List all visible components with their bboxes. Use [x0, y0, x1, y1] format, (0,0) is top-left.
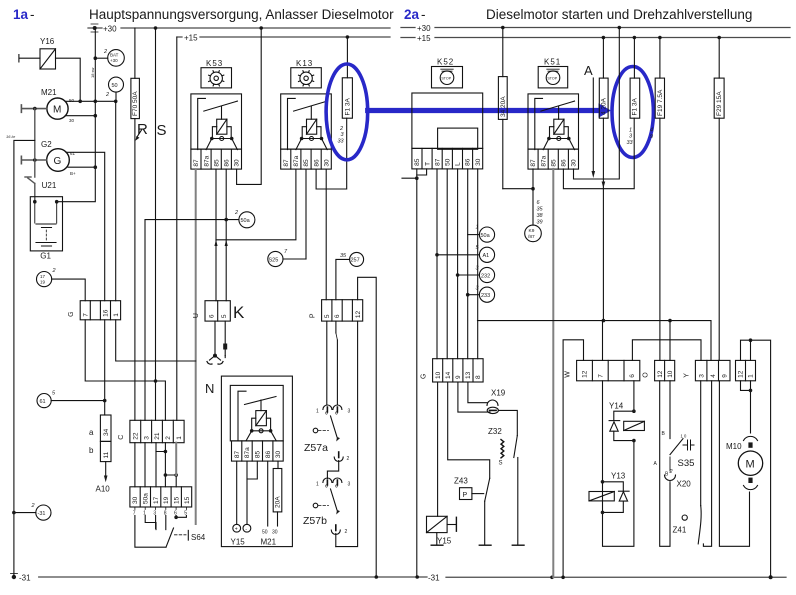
svg-text:3: 3: [698, 374, 705, 378]
wire 50 column to strip G: [115, 101, 117, 300]
svg-text:a: a: [89, 428, 94, 437]
node 17/19 circle: [37, 268, 86, 301]
wire K53-30 to +30 drop: [237, 28, 262, 184]
S64 wiring: [135, 516, 166, 548]
distribution bus wire: [478, 321, 712, 361]
svg-text:2: 2: [52, 268, 56, 274]
wires C22 C3 down: [135, 443, 145, 487]
svg-text:86: 86: [265, 450, 272, 458]
svg-text:35: 35: [537, 207, 544, 213]
svg-text:S35: S35: [678, 458, 695, 469]
wire S column: [155, 28, 157, 420]
svg-text:L: L: [455, 162, 462, 166]
+30 rail section 1a: [88, 28, 390, 37]
svg-text:+15: +15: [184, 34, 198, 43]
svg-text:86: 86: [561, 159, 568, 167]
svg-text:N: N: [205, 381, 214, 396]
svg-text:16 br: 16 br: [6, 134, 16, 139]
battery U21: [30, 181, 62, 260]
svg-text:19: 19: [163, 496, 170, 504]
wire O12 from F19, down to u-turn: [660, 381, 670, 547]
svg-text:P: P: [463, 492, 468, 499]
wire left col with switch to U21: [25, 109, 35, 202]
wire P12 bottom to Z57b out: [336, 321, 358, 546]
svg-text:15: 15: [184, 496, 191, 504]
svg-text:34 20A: 34 20A: [500, 96, 507, 117]
arrow on R line: [137, 130, 142, 137]
svg-text:Z41: Z41: [673, 526, 687, 535]
connector strip U: [205, 301, 230, 321]
svg-text:F70 50A: F70 50A: [132, 91, 139, 116]
wire 12/1 bottom loop to M10: [741, 381, 751, 433]
node K9/87: [532, 189, 534, 225]
svg-text:S: S: [499, 461, 503, 467]
svg-text:F1 3A: F1 3A: [345, 97, 352, 115]
svg-text:30: 30: [272, 530, 278, 536]
wire P12 top loop: [358, 277, 377, 577]
svg-text:/87: /87: [528, 234, 535, 240]
svg-text:F29 15A: F29 15A: [716, 91, 723, 116]
section title 1a: [13, 7, 752, 22]
svg-text:M21: M21: [41, 88, 57, 97]
fuse F29 15A: [718, 38, 720, 361]
switch Z57b: [323, 478, 342, 483]
svg-text:Z32: Z32: [488, 427, 502, 436]
wire W12 loop to rail: [563, 340, 583, 578]
svg-text:22: 22: [133, 432, 140, 440]
svg-text:87a: 87a: [244, 447, 251, 458]
wire W6 loop to Y3: [632, 340, 701, 361]
svg-text:50: 50: [112, 83, 118, 89]
svg-text:38: 38: [537, 213, 544, 219]
K13 wires below: 85 to S25, 86 to F1, 30 to P5: [305, 170, 307, 259]
svg-text:1: 1: [476, 225, 479, 231]
svg-text:8: 8: [475, 375, 482, 379]
svg-text:30: 30: [234, 159, 241, 167]
svg-text:+30: +30: [110, 58, 118, 63]
svg-text:87a: 87a: [540, 155, 547, 166]
svg-text:87: 87: [283, 159, 290, 167]
svg-text:30: 30: [275, 450, 282, 458]
-31 rail section 1a: [39, 576, 786, 578]
svg-text:17: 17: [153, 496, 160, 504]
svg-text:-31: -31: [38, 511, 46, 517]
svg-text:STOP: STOP: [547, 76, 557, 80]
svg-text:2: 2: [105, 92, 109, 98]
node 50: [105, 77, 124, 101]
wire G16 column down to a/34: [104, 320, 106, 415]
svg-text:M21: M21: [261, 538, 277, 547]
valve Y15 (2a): [427, 516, 448, 532]
svg-text:A1: A1: [483, 253, 490, 259]
svg-text:U: U: [193, 313, 200, 318]
svg-text:Z57a: Z57a: [304, 442, 328, 454]
svg-text:85: 85: [303, 159, 310, 167]
svg-text:5: 5: [221, 314, 228, 318]
connector strip Y: [695, 360, 730, 380]
svg-text:A: A: [584, 63, 593, 78]
wire G1-cell route to S64: [116, 320, 196, 361]
fuse F1 3A (2a): [633, 38, 635, 79]
switch Z41: [682, 515, 687, 520]
wire 12/1 strip top loop to rail: [741, 340, 771, 577]
svg-text:O: O: [643, 372, 650, 378]
connector strip O: [655, 360, 675, 380]
svg-text:12: 12: [657, 370, 664, 378]
svg-text:1a: 1a: [13, 7, 29, 22]
svg-text:2: 2: [669, 469, 673, 475]
svg-text:3: 3: [348, 482, 351, 488]
svg-text:S25: S25: [269, 257, 279, 263]
wires U to fork: [214, 321, 216, 356]
control unit N box: [221, 376, 292, 546]
K52 pin wires down: [416, 169, 418, 577]
svg-text:5: 5: [324, 314, 331, 318]
svg-text:+30: +30: [103, 25, 117, 34]
svg-text:30: 30: [323, 159, 330, 167]
svg-text:K: K: [233, 303, 245, 322]
svg-text:257: 257: [351, 258, 360, 264]
svg-text:K52: K52: [437, 58, 454, 67]
svg-text:85: 85: [213, 159, 220, 167]
svg-text:50: 50: [445, 158, 452, 166]
wire Y3 to Z41: [700, 381, 702, 506]
svg-text:2: 2: [103, 49, 107, 55]
svg-text:Z43: Z43: [454, 477, 468, 486]
svg-text:2: 2: [345, 529, 348, 535]
svg-text:232: 232: [481, 273, 490, 279]
svg-text:C: C: [118, 435, 125, 440]
svg-text:14: 14: [445, 371, 452, 379]
svg-text:Y16: Y16: [40, 37, 55, 46]
svg-text:233: 233: [481, 293, 490, 299]
svg-text:12: 12: [355, 310, 362, 318]
svg-text:9: 9: [650, 134, 653, 140]
svg-text:13: 13: [465, 371, 472, 379]
svg-text:M10: M10: [726, 442, 742, 451]
svg-text:3: 3: [143, 436, 150, 440]
svg-text:61: 61: [40, 399, 46, 405]
wires C21/C2 jog: [156, 443, 165, 452]
connector strip C: [130, 420, 184, 442]
svg-text:7: 7: [598, 374, 605, 378]
svg-text:F1 3A: F1 3A: [632, 97, 639, 115]
svg-text:P: P: [310, 313, 317, 318]
svg-text:19: 19: [40, 280, 46, 285]
connector strip 12/1: [736, 360, 756, 380]
svg-text:+15: +15: [417, 34, 431, 43]
svg-text:6: 6: [334, 314, 341, 318]
fuse F19 7.5A: [659, 38, 661, 361]
svg-text:85: 85: [414, 158, 421, 166]
svg-text:Y13: Y13: [611, 472, 626, 481]
svg-text:S64: S64: [191, 533, 206, 542]
svg-text:-: -: [30, 7, 35, 22]
wire G7 down-right to C2: [85, 320, 165, 421]
svg-text:85: 85: [551, 159, 558, 167]
svg-text:30: 30: [571, 159, 578, 167]
generator G2: [21, 140, 104, 301]
svg-text:12: 12: [582, 370, 589, 378]
svg-text:b: b: [89, 446, 94, 455]
svg-text:39: 39: [537, 220, 543, 226]
svg-text:+: +: [235, 527, 238, 533]
K53 wires below: [195, 169, 197, 524]
node BAT +30: [94, 49, 125, 66]
svg-text:87: 87: [434, 158, 441, 166]
svg-text:87a: 87a: [203, 155, 210, 166]
svg-text:50a: 50a: [143, 493, 150, 504]
+30/+15 rails section 2a: [401, 28, 790, 38]
svg-text:Hauptspannungsversorgung, Anla: Hauptspannungsversorgung, Anlasser Diese…: [89, 7, 394, 22]
svg-text:S: S: [157, 122, 167, 139]
svg-text:18 sw: 18 sw: [90, 67, 95, 78]
svg-text:86: 86: [465, 158, 472, 166]
svg-text:12: 12: [738, 370, 745, 378]
svg-text:1: 1: [748, 374, 755, 378]
svg-text:30: 30: [475, 158, 482, 166]
svg-text:K53: K53: [206, 59, 223, 68]
switch Z57a: [326, 321, 328, 405]
svg-text:35: 35: [340, 253, 347, 259]
wire +15 column to C1: [176, 37, 178, 420]
svg-text:B+: B+: [70, 171, 76, 176]
svg-text:3: 3: [348, 409, 351, 415]
svg-text:10: 10: [667, 370, 674, 378]
svg-text:Dieselmotor starten und Drehza: Dieselmotor starten und Drehzahlverstell…: [486, 7, 752, 22]
svg-text:M: M: [746, 459, 755, 471]
svg-text:30: 30: [69, 118, 75, 123]
svg-text:Y: Y: [683, 373, 690, 378]
svg-text:50: 50: [262, 530, 268, 536]
connector strip W: [577, 360, 640, 380]
svg-text:50a: 50a: [481, 233, 491, 239]
relay Y16: [19, 37, 80, 101]
svg-text:86: 86: [224, 159, 231, 167]
svg-text:87: 87: [530, 159, 537, 167]
svg-text:1: 1: [316, 482, 319, 488]
svg-text:4 20A: 4 20A: [601, 97, 608, 115]
svg-text:-31: -31: [428, 574, 440, 583]
svg-text:G: G: [421, 374, 428, 379]
svg-text:1: 1: [113, 313, 120, 317]
svg-text:W: W: [565, 371, 572, 378]
K51 wires: 85 grey to rail, 86 to F1, 30 to +30 drop: [552, 169, 554, 577]
ignition switch strip 30/50a/17/19/15/15: [130, 487, 192, 507]
svg-text:BAT: BAT: [110, 53, 119, 58]
svg-text:G: G: [54, 156, 62, 167]
svg-text:33: 33: [338, 139, 345, 145]
node 50a: [145, 220, 239, 421]
svg-text:50a: 50a: [241, 218, 251, 224]
svg-text:K13: K13: [296, 59, 313, 68]
node 257: [350, 252, 364, 266]
switch S35: [670, 439, 683, 455]
wire +30 column: [57, 28, 96, 202]
svg-text:2: 2: [234, 210, 238, 216]
motor M21 (starter): [21, 88, 117, 123]
svg-text:K51: K51: [544, 58, 561, 67]
svg-text:30: 30: [132, 496, 139, 504]
svg-text:U21: U21: [42, 181, 57, 190]
svg-text:G2: G2: [41, 140, 52, 149]
fuse F1 3A (1a): [346, 37, 348, 78]
nodes 50a A1 232 233: [479, 227, 494, 242]
connector strip G (2a): [433, 359, 484, 382]
svg-text:33: 33: [627, 140, 634, 146]
svg-text:4: 4: [710, 374, 717, 378]
svg-text:9: 9: [455, 375, 462, 379]
svg-text:9: 9: [721, 374, 728, 378]
svg-text:-31: -31: [19, 574, 31, 583]
connector strip P: [322, 300, 363, 321]
svg-text:G: G: [68, 311, 75, 316]
svg-text:Z57b: Z57b: [303, 515, 327, 527]
svg-text:2a: 2a: [404, 7, 420, 22]
svg-text:1: 1: [176, 436, 183, 440]
svg-text:6: 6: [629, 374, 636, 378]
svg-text:2: 2: [31, 503, 35, 509]
svg-text:10: 10: [435, 371, 442, 379]
svg-text:7: 7: [83, 313, 90, 317]
svg-text:Y15: Y15: [437, 537, 452, 546]
switch S64: [166, 528, 174, 547]
connector strip G (1a): [80, 301, 120, 320]
svg-text:F19 7.5A: F19 7.5A: [657, 89, 664, 116]
fuse F4 20A with arrow to 86 wire: [602, 38, 604, 321]
svg-text:11: 11: [103, 451, 110, 458]
+30 start symbol: [91, 24, 98, 32]
svg-text:+30: +30: [417, 24, 431, 33]
svg-text:1 0: 1 0: [681, 434, 687, 439]
node 2 -31: [36, 505, 51, 520]
svg-text:85: 85: [255, 450, 262, 458]
svg-text:87: 87: [234, 450, 241, 458]
svg-text:M: M: [53, 105, 61, 116]
svg-text:Y14: Y14: [609, 402, 624, 411]
svg-text:X20: X20: [677, 480, 692, 489]
svg-text:T: T: [424, 162, 431, 166]
element a/34 b/11 A10: [100, 415, 111, 441]
wire Y9 from F29 down to motor u-turn: [719, 381, 749, 547]
svg-text:4: 4: [650, 128, 653, 134]
svg-text:50: 50: [69, 98, 75, 103]
fuse F70 50A: [131, 28, 140, 420]
svg-text:A10: A10: [96, 485, 111, 494]
fuse F34 20A: [501, 26, 505, 30]
blue jump arrow: [368, 108, 600, 113]
svg-text:15: 15: [173, 496, 180, 504]
svg-text:X19: X19: [491, 389, 506, 398]
wire O10 with S35/X20: [669, 321, 671, 439]
svg-text:16: 16: [103, 309, 110, 317]
svg-text:STOP: STOP: [441, 76, 451, 80]
left border wire: [14, 140, 35, 577]
svg-text:6: 6: [209, 314, 216, 318]
svg-text:-: -: [421, 7, 426, 22]
svg-text:2: 2: [165, 436, 172, 440]
svg-text:G1: G1: [40, 251, 51, 260]
svg-text:K9: K9: [529, 228, 535, 234]
svg-text:86: 86: [313, 159, 320, 167]
svg-text:34: 34: [103, 428, 110, 436]
svg-text:2: 2: [347, 456, 350, 462]
node 61: [37, 394, 51, 408]
svg-text:87a: 87a: [293, 155, 300, 166]
svg-text:21: 21: [154, 432, 161, 440]
G strip wires: [437, 382, 439, 516]
svg-text:1: 1: [316, 409, 319, 415]
svg-text:87: 87: [193, 159, 200, 167]
svg-text:20A: 20A: [275, 496, 282, 508]
svg-text:17: 17: [40, 274, 46, 279]
svg-text:Y15: Y15: [231, 538, 246, 547]
wire W7 feed + Y13 branch: [603, 321, 634, 547]
